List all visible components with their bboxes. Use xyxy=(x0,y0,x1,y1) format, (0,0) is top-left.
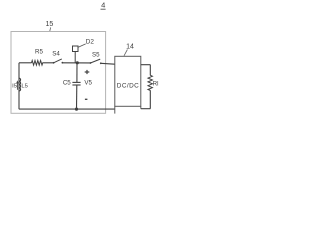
inductor L5 xyxy=(19,78,21,91)
leader line D2 xyxy=(78,44,86,47)
battery unit box 15 xyxy=(11,32,106,114)
svg-text:V5: V5 xyxy=(84,80,92,87)
wire: load right vertical upper xyxy=(149,65,151,76)
svg-text:I5: I5 xyxy=(12,84,17,90)
switch S4 xyxy=(53,62,55,64)
capacitor branch lower wire xyxy=(76,85,78,109)
wire: S5 to converter box xyxy=(101,62,115,65)
capacitor branch upper wire xyxy=(76,63,78,83)
switch S5 xyxy=(90,62,92,64)
diode D2 stub wire xyxy=(74,52,76,63)
svg-text:R5: R5 xyxy=(35,48,43,55)
svg-text:4: 4 xyxy=(101,1,105,10)
wire: converter to load bottom xyxy=(141,108,151,110)
svg-text:S5: S5 xyxy=(92,52,100,59)
wire: load right vertical lower xyxy=(149,90,151,109)
leader line 15 xyxy=(50,27,51,31)
capacitor C5 xyxy=(72,81,80,83)
wire: between S4 and node A xyxy=(62,62,90,64)
diode D2 xyxy=(73,46,79,52)
svg-text:Rl: Rl xyxy=(153,82,159,88)
svg-text:14: 14 xyxy=(126,43,134,50)
converter box left edge extension xyxy=(114,106,116,113)
node A junction dot xyxy=(76,61,79,64)
resistor R5 xyxy=(32,61,44,66)
svg-text:D2: D2 xyxy=(86,38,95,45)
plus sign of V5 xyxy=(85,71,90,73)
wire: between R5 and S4 xyxy=(44,62,55,64)
wire: bottom xyxy=(19,108,115,110)
wire: left vertical xyxy=(18,63,20,109)
leader line 14 xyxy=(124,50,127,56)
svg-text:DC/DC: DC/DC xyxy=(117,82,140,89)
resistor Rl xyxy=(148,75,152,90)
converter box right edge extension xyxy=(140,106,142,108)
svg-text:S4: S4 xyxy=(52,51,60,58)
svg-text:15: 15 xyxy=(46,21,54,28)
svg-text:L5: L5 xyxy=(21,84,27,90)
wire: converter to load top xyxy=(141,64,151,66)
minus sign of V5 xyxy=(85,98,88,100)
converter box 14 DC/DC xyxy=(115,56,141,106)
svg-text:C5: C5 xyxy=(63,80,71,87)
node B junction dot xyxy=(75,108,78,111)
current arrow I5 xyxy=(16,83,18,90)
wire: top left segment xyxy=(19,62,32,64)
underline of figure number 4 xyxy=(101,8,106,10)
